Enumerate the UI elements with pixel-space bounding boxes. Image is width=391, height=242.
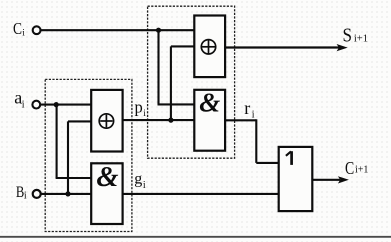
terminal C_i: [33, 26, 41, 34]
scan border bottom: [0, 236, 391, 238]
svg-text:i+1: i+1: [354, 34, 368, 45]
svg-text:i: i: [143, 109, 146, 119]
arrow C_i+1 output: [338, 176, 349, 183]
XOR gate U1 body: [194, 16, 225, 78]
wire B_i branch vertical: [67, 121, 69, 193]
svg-text:i: i: [22, 28, 25, 38]
XOR gate U3 body: [91, 90, 122, 152]
node on B_i wire: [65, 191, 70, 196]
wire r from AND U2: [225, 119, 256, 121]
wire r vertical: [255, 119, 257, 163]
wire C_i branch vertical: [157, 30, 159, 104]
OR U5 symbol "1": [286, 151, 292, 165]
wire C_i+1 output: [312, 179, 340, 181]
dashed block: propagate-generate stage: [45, 79, 132, 231]
wire B_i branch into XOR U3: [68, 120, 91, 122]
svg-text:&: &: [199, 88, 220, 118]
wire C_i horizontal: [41, 29, 195, 31]
wire p_i vertical up to XOR U1: [170, 46, 172, 120]
svg-text:S: S: [343, 24, 353, 46]
node on C_i wire: [156, 28, 161, 33]
terminal B_i: [33, 190, 41, 198]
svg-text:i+1: i+1: [355, 165, 368, 176]
svg-text:i: i: [24, 191, 27, 202]
wire a_i horizontal: [41, 104, 91, 106]
AND gate U4 body: [91, 163, 122, 224]
svg-text:i: i: [252, 109, 255, 120]
svg-text:C: C: [13, 19, 22, 38]
wire B_i horizontal: [41, 193, 91, 195]
terminal a_i: [32, 101, 40, 109]
OR gate U5 body: [279, 147, 313, 211]
wire a_i branch vertical: [56, 105, 58, 178]
svg-text:p: p: [135, 97, 143, 116]
wire a_i branch into AND U4: [56, 177, 92, 179]
XOR U1 symbol: [201, 40, 215, 54]
wire p_i into XOR U1: [171, 45, 194, 47]
wire g_i from AND U4 to OR U5: [123, 193, 279, 195]
svg-text:i: i: [22, 99, 25, 110]
svg-text:&: &: [96, 162, 118, 193]
dashed block: sum stage: [148, 6, 235, 158]
wire r into OR U5: [256, 162, 278, 164]
node on p_i wire: [168, 118, 173, 123]
wire S output: [225, 46, 339, 48]
wire C_i branch into AND U2: [158, 103, 195, 105]
XOR U3 symbol: [99, 114, 113, 128]
svg-text:i: i: [143, 180, 146, 191]
svg-text:g: g: [134, 171, 142, 188]
node on a_i wire: [54, 102, 59, 107]
wire p_i from XOR U3 to AND U2: [123, 119, 195, 121]
svg-text:r: r: [244, 98, 250, 118]
arrow S output: [337, 44, 348, 51]
svg-text:C: C: [345, 158, 354, 178]
AND gate U2 body: [194, 90, 225, 151]
